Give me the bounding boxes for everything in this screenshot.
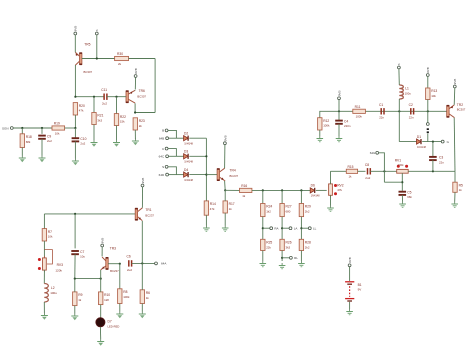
svg-text:TR1: TR1 bbox=[145, 208, 151, 212]
svg-text:22n: 22n bbox=[379, 116, 384, 120]
svg-text:D3: D3 bbox=[184, 150, 188, 154]
svg-text:C: C bbox=[162, 147, 165, 151]
svg-text:SGN: SGN bbox=[2, 126, 9, 130]
svg-text:R28: R28 bbox=[305, 241, 311, 245]
svg-text:120k: 120k bbox=[55, 269, 62, 273]
svg-text:TR4: TR4 bbox=[230, 168, 236, 172]
svg-text:B: B bbox=[162, 129, 164, 133]
svg-text:64C: 64C bbox=[159, 155, 165, 159]
svg-text:C11: C11 bbox=[101, 88, 107, 92]
svg-text:R29: R29 bbox=[305, 205, 311, 209]
svg-text:R15: R15 bbox=[347, 165, 353, 169]
svg-text:C6: C6 bbox=[127, 255, 131, 259]
svg-text:64A: 64A bbox=[161, 262, 166, 266]
svg-text:9VB: 9VB bbox=[426, 67, 430, 73]
svg-text:1N4148: 1N4148 bbox=[311, 195, 320, 198]
svg-text:BC307: BC307 bbox=[84, 70, 93, 74]
svg-text:R10: R10 bbox=[104, 293, 110, 297]
svg-text:2k2: 2k2 bbox=[305, 245, 310, 249]
svg-text:R30: R30 bbox=[117, 52, 123, 56]
svg-text:220n: 220n bbox=[344, 124, 351, 128]
svg-text:1k8: 1k8 bbox=[104, 298, 109, 302]
svg-text:R19: R19 bbox=[54, 122, 60, 126]
svg-text:100k: 100k bbox=[123, 295, 130, 299]
svg-text:68k: 68k bbox=[26, 140, 31, 144]
svg-text:100k: 100k bbox=[356, 115, 363, 119]
svg-text:D7: D7 bbox=[108, 319, 112, 323]
svg-text:RL: RL bbox=[294, 256, 298, 260]
svg-text:R21: R21 bbox=[97, 114, 103, 118]
svg-text:S: S bbox=[95, 29, 99, 31]
svg-text:R16: R16 bbox=[241, 184, 247, 188]
svg-text:1k: 1k bbox=[78, 298, 82, 302]
svg-text:2k: 2k bbox=[139, 124, 143, 128]
svg-text:R26: R26 bbox=[286, 241, 292, 245]
svg-text:R11: R11 bbox=[355, 105, 361, 109]
svg-text:RA: RA bbox=[274, 226, 278, 230]
svg-text:R17: R17 bbox=[229, 202, 235, 206]
svg-text:100k: 100k bbox=[398, 163, 405, 167]
svg-text:S: S bbox=[397, 63, 401, 65]
svg-text:R25: R25 bbox=[266, 241, 272, 245]
svg-text:LL: LL bbox=[313, 226, 317, 230]
svg-text:R9: R9 bbox=[78, 293, 82, 297]
svg-text:C4: C4 bbox=[344, 119, 348, 123]
svg-text:RV3: RV3 bbox=[57, 263, 64, 267]
svg-text:9VB: 9VB bbox=[74, 26, 78, 32]
svg-text:L2: L2 bbox=[51, 286, 55, 290]
svg-text:TR6: TR6 bbox=[139, 89, 145, 93]
svg-text:1k: 1k bbox=[459, 188, 463, 192]
svg-text:10k: 10k bbox=[48, 235, 53, 239]
svg-text:BC237: BC237 bbox=[145, 213, 154, 217]
svg-text:TR3: TR3 bbox=[110, 247, 116, 251]
svg-text:2u2: 2u2 bbox=[127, 268, 132, 272]
svg-text:9VB: 9VB bbox=[134, 68, 138, 74]
svg-text:RV2: RV2 bbox=[337, 183, 344, 187]
svg-text:1k: 1k bbox=[242, 194, 246, 198]
svg-text:BC237: BC237 bbox=[110, 269, 119, 273]
svg-text:1N4148: 1N4148 bbox=[184, 142, 193, 145]
svg-text:3k3: 3k3 bbox=[97, 119, 102, 123]
svg-text:C2: C2 bbox=[409, 103, 413, 107]
svg-text:B1: B1 bbox=[358, 283, 362, 287]
svg-text:3k3: 3k3 bbox=[286, 245, 291, 249]
svg-text:2u2: 2u2 bbox=[102, 102, 107, 106]
svg-text:9VB: 9VB bbox=[101, 238, 105, 244]
svg-text:2k: 2k bbox=[118, 62, 122, 66]
svg-text:1k: 1k bbox=[146, 296, 150, 300]
svg-text:22n: 22n bbox=[439, 160, 444, 164]
svg-text:R6: R6 bbox=[146, 291, 150, 295]
svg-text:10k: 10k bbox=[431, 94, 436, 98]
svg-text:2u2: 2u2 bbox=[365, 176, 370, 180]
svg-text:64D: 64D bbox=[159, 173, 165, 177]
svg-text:R13: R13 bbox=[431, 89, 437, 93]
svg-text:BC307: BC307 bbox=[457, 108, 466, 112]
svg-text:S: S bbox=[162, 165, 164, 169]
svg-text:BC237: BC237 bbox=[230, 174, 239, 178]
svg-text:R23: R23 bbox=[139, 119, 145, 123]
svg-text:22n: 22n bbox=[409, 116, 414, 120]
svg-text:C7: C7 bbox=[80, 250, 84, 254]
svg-text:G: G bbox=[447, 140, 450, 144]
svg-text:C8: C8 bbox=[365, 163, 369, 167]
svg-text:47k: 47k bbox=[210, 207, 215, 211]
svg-text:15k: 15k bbox=[120, 120, 125, 124]
svg-text:64B: 64B bbox=[159, 137, 164, 141]
svg-text:D4: D4 bbox=[184, 168, 188, 172]
svg-text:2u2: 2u2 bbox=[47, 139, 52, 143]
svg-text:64G: 64G bbox=[370, 151, 376, 155]
svg-text:D1: D1 bbox=[417, 135, 421, 139]
svg-text:R12: R12 bbox=[323, 119, 329, 123]
svg-text:C5: C5 bbox=[407, 191, 411, 195]
svg-text:100k: 100k bbox=[323, 124, 330, 128]
svg-text:9VB: 9VB bbox=[223, 135, 227, 141]
svg-text:680: 680 bbox=[286, 210, 291, 214]
svg-text:LED-RED: LED-RED bbox=[108, 325, 120, 329]
svg-text:R27: R27 bbox=[286, 205, 292, 209]
svg-text:C10: C10 bbox=[80, 137, 86, 141]
svg-text:9VB: 9VB bbox=[141, 178, 145, 184]
svg-text:R22: R22 bbox=[120, 115, 126, 119]
svg-text:L1: L1 bbox=[405, 86, 409, 90]
svg-text:R8: R8 bbox=[123, 290, 127, 294]
svg-text:47k: 47k bbox=[79, 109, 84, 113]
svg-text:1N4148: 1N4148 bbox=[417, 146, 426, 149]
svg-text:9VB: 9VB bbox=[453, 79, 457, 85]
svg-text:R5: R5 bbox=[459, 183, 463, 187]
svg-text:R18: R18 bbox=[26, 135, 32, 139]
svg-text:R24: R24 bbox=[266, 205, 272, 209]
svg-text:9V: 9V bbox=[358, 287, 362, 291]
svg-text:C1: C1 bbox=[379, 103, 383, 107]
svg-text:47k: 47k bbox=[337, 188, 342, 192]
svg-text:C9: C9 bbox=[47, 134, 51, 138]
svg-text:LA: LA bbox=[294, 226, 298, 230]
svg-text:TR2: TR2 bbox=[457, 103, 463, 107]
svg-text:9VB: 9VB bbox=[348, 257, 352, 263]
svg-text:R7: R7 bbox=[48, 230, 52, 234]
svg-text:2k2: 2k2 bbox=[305, 210, 310, 214]
svg-text:100u: 100u bbox=[405, 91, 412, 95]
svg-text:D6: D6 bbox=[311, 184, 315, 188]
svg-text:10u: 10u bbox=[80, 254, 85, 258]
svg-text:1N4148: 1N4148 bbox=[184, 179, 193, 182]
svg-text:10k: 10k bbox=[55, 131, 60, 135]
svg-text:C3: C3 bbox=[439, 156, 443, 160]
svg-text:22k: 22k bbox=[266, 245, 271, 249]
svg-text:TR5: TR5 bbox=[84, 43, 90, 47]
svg-text:1k: 1k bbox=[348, 175, 352, 179]
svg-text:2u2: 2u2 bbox=[80, 142, 85, 146]
svg-text:BC307: BC307 bbox=[137, 94, 146, 98]
svg-text:D2: D2 bbox=[184, 131, 188, 135]
svg-text:RV1: RV1 bbox=[395, 158, 402, 162]
svg-text:1k2: 1k2 bbox=[266, 210, 271, 214]
svg-text:1k: 1k bbox=[229, 207, 233, 211]
svg-text:9VB: 9VB bbox=[337, 90, 341, 96]
svg-text:68n: 68n bbox=[407, 195, 412, 199]
svg-text:1N4148: 1N4148 bbox=[184, 161, 193, 164]
svg-text:100u: 100u bbox=[50, 291, 57, 295]
svg-text:R14: R14 bbox=[210, 202, 216, 206]
svg-text:R20: R20 bbox=[79, 104, 85, 108]
